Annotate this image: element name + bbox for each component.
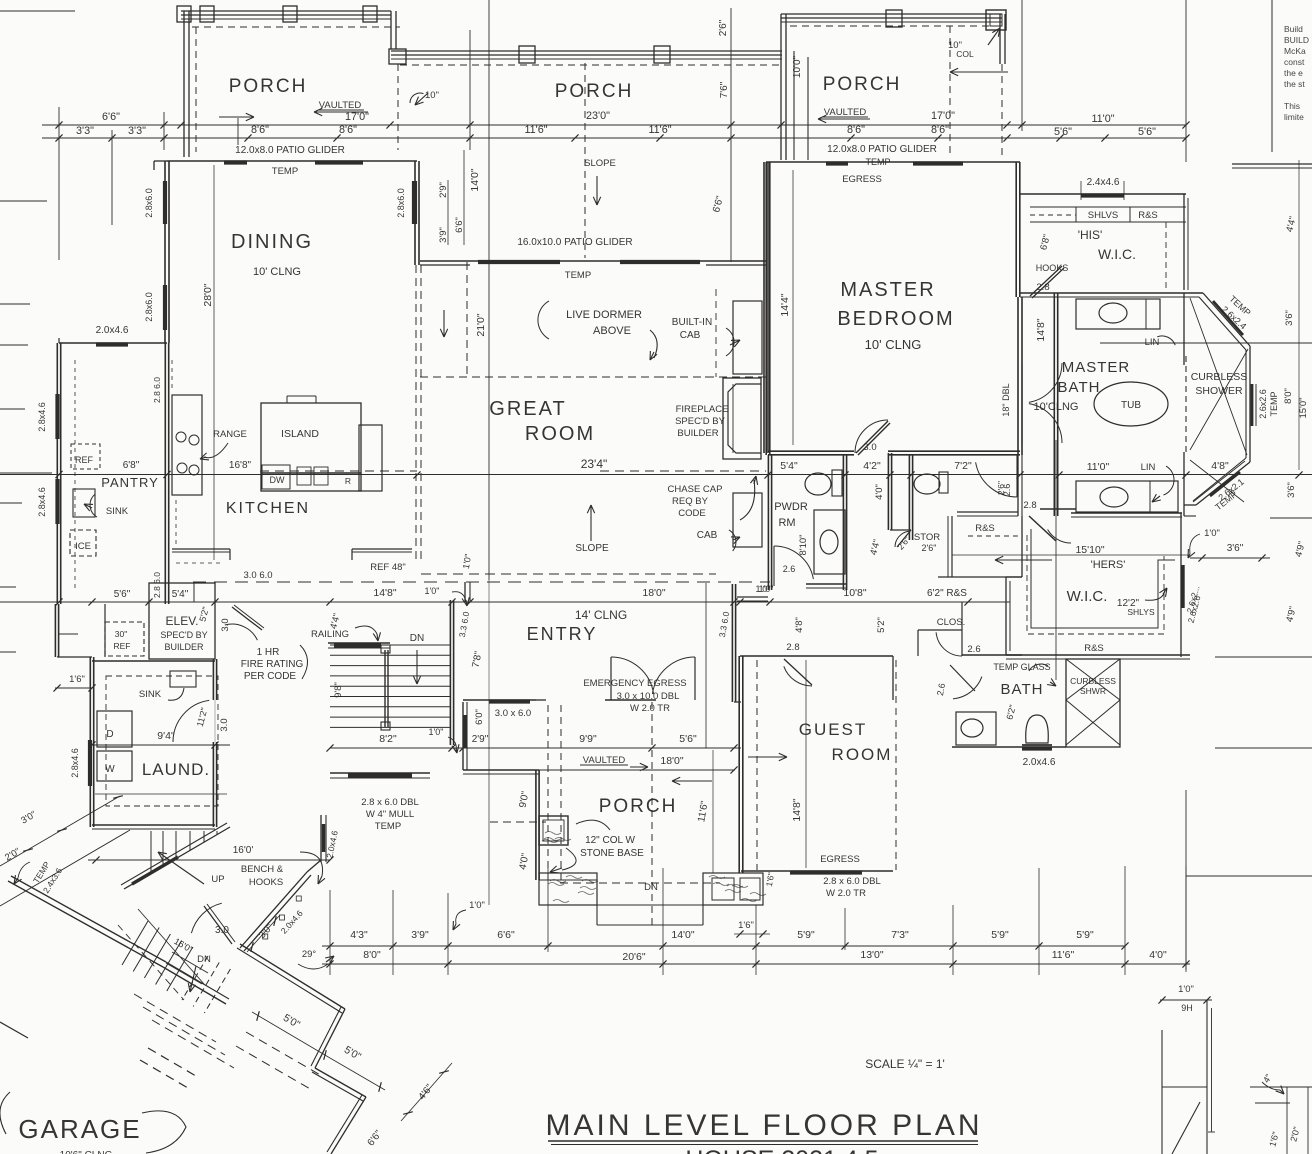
svg-text:W.I.C.: W.I.C. <box>1067 588 1108 605</box>
svg-text:TEMP GLASS: TEMP GLASS <box>993 662 1050 672</box>
master bath north wall <box>1020 292 1203 294</box>
dining NW corner jog <box>154 160 167 162</box>
mud door 3.0 leaf <box>204 906 232 944</box>
svg-text:BUILD: BUILD <box>1284 35 1309 45</box>
guest door opening and leaf <box>784 659 812 685</box>
porch4 center dashed <box>651 702 653 930</box>
svg-text:DN: DN <box>644 882 658 893</box>
svg-text:R&S: R&S <box>1084 643 1104 654</box>
svg-text:DN: DN <box>197 954 211 965</box>
svg-text:DW: DW <box>270 475 285 485</box>
svg-text:10'8": 10'8" <box>843 587 867 599</box>
svg-text:23'0": 23'0" <box>586 110 610 122</box>
svg-text:11'0": 11'0" <box>1087 461 1110 473</box>
svg-text:17'0": 17'0" <box>931 110 955 122</box>
svg-text:18'0": 18'0" <box>660 755 684 767</box>
roof dashed over built-in <box>715 289 717 377</box>
his wic west wall <box>1021 297 1023 455</box>
label REF pantry <box>71 444 100 469</box>
kitchen cab dashes south <box>176 562 222 564</box>
linen north wall <box>957 511 1018 513</box>
svg-text:5'9": 5'9" <box>1076 929 1094 941</box>
dining west windows 2.8x6.0 <box>163 181 167 224</box>
svg-text:HOOKS: HOOKS <box>249 877 283 888</box>
svg-text:VAULTED: VAULTED <box>583 755 626 766</box>
svg-text:6'6": 6'6" <box>497 929 515 941</box>
svg-text:2.6: 2.6 <box>783 564 796 574</box>
pantry dim ticks <box>55 471 62 478</box>
laundry dim 9'4 <box>90 744 230 746</box>
laundry north wall <box>92 660 215 662</box>
svg-text:KITCHEN: KITCHEN <box>226 500 310 517</box>
stor door diagonal <box>897 530 911 547</box>
porch2 interior dashed column lines <box>584 63 586 258</box>
svg-text:const: const <box>1284 57 1305 67</box>
svg-text:16'8": 16'8" <box>229 460 252 471</box>
svg-text:STOR: STOR <box>914 532 940 543</box>
svg-text:BUILT-IN: BUILT-IN <box>672 317 712 328</box>
porch top-left west wall <box>183 11 185 157</box>
svg-text:UP: UP <box>211 874 224 885</box>
svg-text:3'3": 3'3" <box>128 125 146 137</box>
svg-text:2.6: 2.6 <box>935 682 947 696</box>
garage step wall D down-left <box>331 1097 366 1154</box>
svg-text:1'6": 1'6" <box>69 674 85 685</box>
svg-text:RANGE: RANGE <box>213 429 247 440</box>
svg-text:SHOWER: SHOWER <box>1195 385 1243 397</box>
porch top-right corner column <box>986 10 1006 30</box>
stor walls <box>912 455 914 540</box>
svg-text:2.6x2.6: 2.6x2.6 <box>1258 389 1268 419</box>
svg-text:29°: 29° <box>302 949 317 960</box>
svg-text:16.0x10.0 PATIO GLIDER: 16.0x10.0 PATIO GLIDER <box>517 237 632 248</box>
guest room north wall <box>740 655 893 657</box>
corridor diagonal cross line <box>138 909 204 984</box>
pantry dashed door <box>164 359 166 391</box>
svg-text:7'2": 7'2" <box>954 460 972 472</box>
svg-text:DINING: DINING <box>231 231 313 253</box>
kitchen counter dashed <box>175 500 177 545</box>
svg-text:14'8": 14'8" <box>1035 318 1047 342</box>
svg-text:2'9": 2'9" <box>438 182 449 198</box>
porch4 roof dash left <box>490 821 546 823</box>
master south wall right of door <box>888 450 1020 452</box>
pwdr west wall <box>771 455 773 590</box>
svg-text:10' CLNG: 10' CLNG <box>253 266 301 278</box>
svg-text:W 4" MULL: W 4" MULL <box>366 809 414 820</box>
title underline <box>548 1140 978 1142</box>
svg-text:ABOVE: ABOVE <box>593 325 631 337</box>
bench hook squares <box>263 934 268 939</box>
svg-text:This: This <box>1284 101 1300 111</box>
dormer curve brackets <box>538 301 549 339</box>
laundry door arc <box>173 700 209 742</box>
svg-text:the e: the e <box>1284 68 1303 78</box>
clos walls <box>917 630 919 656</box>
svg-text:LIN: LIN <box>1141 462 1156 473</box>
svg-text:VAULTED: VAULTED <box>824 107 867 118</box>
svg-text:TEMP: TEMP <box>272 166 298 177</box>
svg-text:23'4": 23'4" <box>581 457 608 471</box>
svg-text:R: R <box>345 476 351 486</box>
svg-text:RM: RM <box>778 517 795 529</box>
svg-text:6'0": 6'0" <box>474 709 485 725</box>
svg-text:MASTER: MASTER <box>1062 359 1131 376</box>
porch top-left roof beam <box>181 10 391 12</box>
svg-text:SCALE ¼" = 1': SCALE ¼" = 1' <box>865 1057 945 1071</box>
porch top-middle roof beam <box>391 50 782 52</box>
svg-text:4'0": 4'0" <box>874 484 885 500</box>
svg-text:SHWR: SHWR <box>1080 686 1106 696</box>
svg-text:4'0": 4'0" <box>1149 949 1167 961</box>
kitchen island <box>261 403 361 473</box>
svg-text:2.6: 2.6 <box>967 644 980 655</box>
mud west wall <box>58 604 60 657</box>
detail right dims <box>1250 1086 1312 1088</box>
guest bath toilet <box>1026 715 1049 743</box>
svg-text:3.0 x 10.0 DBL: 3.0 x 10.0 DBL <box>617 691 680 702</box>
entry hall east wall <box>735 584 737 702</box>
laundry east wall lower <box>216 742 218 827</box>
dim line y555 hers <box>952 554 1190 556</box>
master door swing arc <box>855 420 888 453</box>
hall jog wall east <box>737 596 768 598</box>
svg-text:ISLAND: ISLAND <box>281 428 319 440</box>
svg-text:REF 48": REF 48" <box>370 562 406 573</box>
deck east window <box>322 824 325 852</box>
svg-text:5'2": 5'2" <box>876 617 887 633</box>
svg-text:2.8: 2.8 <box>786 642 799 653</box>
porch4 dashes stoop <box>560 882 720 884</box>
master bath south wall <box>1040 508 1076 510</box>
svg-text:2.8: 2.8 <box>1036 282 1049 293</box>
entry double door arcs <box>611 657 654 694</box>
svg-text:3.0 6.0: 3.0 6.0 <box>243 570 272 581</box>
guest bath vanity <box>956 712 996 745</box>
dim 16'0 deck <box>88 859 330 861</box>
garage approach angled dim lines top-left <box>0 796 120 866</box>
his wic roof dashed <box>1165 222 1167 290</box>
dim extension x489 porch4 <box>488 700 490 905</box>
svg-text:SHLVS: SHLVS <box>1088 210 1118 221</box>
svg-text:CAB: CAB <box>680 330 701 341</box>
deck east wall vertical <box>320 815 322 862</box>
svg-text:'HERS': 'HERS' <box>1091 559 1126 571</box>
svg-text:3'6": 3'6" <box>1284 310 1295 326</box>
hers wic inner dashed shelf <box>1027 535 1164 634</box>
hooks rod diagonal <box>1030 266 1062 296</box>
pantry shelves dashes <box>74 360 76 590</box>
porch3 left arrow <box>950 71 1008 73</box>
bottom dim line upper y946 <box>322 945 1125 947</box>
svg-text:W 2.0 TR: W 2.0 TR <box>630 703 670 714</box>
svg-text:1'0": 1'0" <box>1178 984 1194 995</box>
hers wic east wall <box>1180 513 1182 657</box>
dining east wall <box>418 161 420 265</box>
top dimension line upper <box>42 124 1186 126</box>
angled dim 3'0 bench <box>247 915 280 952</box>
dining north windows temp <box>224 160 247 164</box>
hers wic inner outline <box>1031 529 1175 628</box>
svg-text:PORCH: PORCH <box>229 76 308 97</box>
svg-text:TEMP: TEMP <box>565 270 591 281</box>
island top jogs <box>286 396 288 403</box>
angled dim 5'0 a <box>252 1012 330 1058</box>
pantry east wall <box>168 343 170 604</box>
svg-text:12" COL W: 12" COL W <box>585 835 635 846</box>
svg-text:3'6": 3'6" <box>1227 543 1244 554</box>
svg-text:VAULTED: VAULTED <box>319 100 362 111</box>
svg-text:REF: REF <box>114 641 131 651</box>
deck steps fan below laundry <box>150 831 152 873</box>
guest interior dashed right <box>895 660 897 870</box>
master door 3.0 leaf <box>856 421 888 453</box>
his wic north wall <box>1020 193 1186 195</box>
svg-text:SINK: SINK <box>106 506 129 517</box>
svg-text:3.0: 3.0 <box>863 442 876 453</box>
svg-text:BEDROOM: BEDROOM <box>837 308 954 330</box>
ticks bottom dims <box>326 942 333 949</box>
svg-text:1'6": 1'6" <box>738 920 754 931</box>
svg-text:8'6": 8'6" <box>339 124 357 136</box>
svg-text:BATH: BATH <box>1001 681 1044 698</box>
svg-text:REF: REF <box>75 455 94 465</box>
stair east wall <box>453 600 455 745</box>
svg-text:14'4": 14'4" <box>779 293 791 317</box>
guest bath window 2.0x4.6 <box>1022 746 1052 750</box>
svg-text:28'0": 28'0" <box>202 283 214 307</box>
svg-text:4'3": 4'3" <box>350 929 368 941</box>
wc toilet <box>914 474 940 494</box>
range burners <box>176 432 186 442</box>
svg-text:BUILDER: BUILDER <box>677 428 718 439</box>
svg-text:SHLYS: SHLYS <box>1127 607 1155 617</box>
svg-text:W: W <box>105 764 115 775</box>
wc door arc <box>1016 455 1018 497</box>
porch top-right eave dashed <box>790 25 1000 27</box>
svg-text:14'0": 14'0" <box>671 929 695 941</box>
porch top-left columns <box>177 6 191 22</box>
svg-text:STONE BASE: STONE BASE <box>580 848 644 859</box>
svg-text:10' CLNG: 10' CLNG <box>865 337 922 352</box>
svg-text:1'0": 1'0" <box>425 586 440 596</box>
mud door swing arc <box>191 903 221 933</box>
svg-text:15'0": 15'0" <box>1298 397 1309 418</box>
svg-text:17'0": 17'0" <box>345 111 369 123</box>
porch top-left west eave dashed <box>195 27 197 152</box>
svg-text:McKa: McKa <box>1284 46 1306 56</box>
master bedroom north wall <box>766 161 1020 163</box>
pwdr toilet <box>805 473 831 495</box>
stair railing <box>384 650 386 727</box>
svg-text:CODE: CODE <box>678 508 705 519</box>
svg-text:limite: limite <box>1284 112 1304 122</box>
right margin vertical border line <box>1271 0 1273 152</box>
svg-text:CURBLESS: CURBLESS <box>1191 371 1248 383</box>
guest bath south wall <box>952 746 1066 748</box>
stairs block <box>330 644 450 646</box>
svg-text:D: D <box>106 729 113 740</box>
garage entry wall fragments bottom-left <box>0 1022 28 1038</box>
label DW <box>262 465 290 489</box>
porch top-right east wall <box>999 14 1001 64</box>
svg-text:3'9": 3'9" <box>411 929 429 941</box>
svg-text:PANTRY: PANTRY <box>101 475 159 490</box>
porch4 area west wall <box>538 770 540 880</box>
svg-text:8'0": 8'0" <box>1283 388 1294 404</box>
vanity top box <box>1076 299 1160 329</box>
svg-text:20'6": 20'6" <box>622 951 646 963</box>
porch top-left east eave dashed <box>397 64 399 150</box>
his wic dashed rod line <box>1030 214 1076 216</box>
svg-text:21'0": 21'0" <box>475 313 487 337</box>
svg-text:1'0": 1'0" <box>469 900 485 911</box>
bench wall <box>240 872 307 948</box>
svg-text:5'6": 5'6" <box>1138 126 1156 138</box>
entry-porch jog wall <box>463 769 539 771</box>
svg-text:MAIN LEVEL FLOOR PLAN: MAIN LEVEL FLOOR PLAN <box>545 1109 982 1142</box>
tub <box>1094 382 1168 426</box>
svg-text:DN: DN <box>410 633 424 644</box>
svg-text:2.8x6.0: 2.8x6.0 <box>144 188 154 218</box>
arrow 12-2 up right <box>1145 590 1165 600</box>
great room slope arrow up <box>590 505 592 541</box>
right margin stub lines <box>1232 163 1312 165</box>
svg-text:11'0": 11'0" <box>1091 113 1114 125</box>
porch4 center steps <box>597 904 703 906</box>
svg-text:GREAT: GREAT <box>489 398 566 420</box>
svg-text:2.8: 2.8 <box>1023 500 1036 511</box>
great room north wall with patio glider windows <box>420 260 766 262</box>
bench upper wall to deck <box>307 860 321 872</box>
svg-text:EGRESS: EGRESS <box>842 174 882 185</box>
hers east window 2.6x2.6 <box>1181 565 1184 608</box>
svg-text:8'0": 8'0" <box>363 949 381 961</box>
pantry north window <box>96 342 128 346</box>
hall wall stor west <box>891 453 893 530</box>
svg-text:16'0': 16'0' <box>233 845 254 856</box>
svg-text:W.I.C.: W.I.C. <box>1098 246 1136 262</box>
svg-text:2'9": 2'9" <box>472 734 489 745</box>
svg-text:12.0x8.0 PATIO GLIDER: 12.0x8.0 PATIO GLIDER <box>235 145 345 156</box>
svg-text:14' CLNG: 14' CLNG <box>575 608 627 622</box>
right edge vertical dim lines <box>1298 160 1300 470</box>
shower bay top diagonal window temp <box>1213 301 1243 335</box>
bench arrow <box>300 852 323 876</box>
dim 18'0 <box>530 769 735 771</box>
svg-text:18'0": 18'0" <box>642 587 666 599</box>
svg-text:1'0": 1'0" <box>429 727 444 737</box>
great room south dashed vault line <box>421 573 716 575</box>
master bath doors DBL arcs <box>1029 363 1062 402</box>
svg-text:the st: the st <box>1284 79 1305 89</box>
svg-text:CLOS.: CLOS. <box>937 617 966 628</box>
great room dormer dashed rect <box>420 376 766 378</box>
shower bay east wall <box>1249 346 1251 462</box>
svg-text:PORCH: PORCH <box>823 74 902 95</box>
roof dashed angled lines below corridor <box>134 994 216 1042</box>
vanity bottom basin <box>1100 487 1128 507</box>
svg-text:TUB: TUB <box>1121 400 1141 411</box>
bath north wall <box>962 654 1022 656</box>
garage step wall B down-left <box>315 1009 345 1068</box>
svg-text:2.8x4.6: 2.8x4.6 <box>37 402 47 432</box>
laundry sink box <box>170 671 196 687</box>
porch top-right columns <box>886 10 902 27</box>
svg-text:3.0 x 6.0: 3.0 x 6.0 <box>495 708 531 719</box>
svg-text:5'6": 5'6" <box>679 733 697 745</box>
porch top-left east post <box>390 11 392 49</box>
svg-text:4'8": 4'8" <box>1211 460 1229 472</box>
svg-text:2.0x4.6: 2.0x4.6 <box>96 325 129 336</box>
svg-text:5'6": 5'6" <box>114 589 131 600</box>
corner arrows near 468 600 <box>452 592 466 602</box>
svg-text:ENTRY: ENTRY <box>527 624 598 644</box>
svg-text:2.8x4.6: 2.8x4.6 <box>70 748 80 778</box>
svg-text:LAUND.: LAUND. <box>142 760 210 779</box>
svg-text:3'3": 3'3" <box>76 125 94 137</box>
svg-text:SPEC'D BY: SPEC'D BY <box>675 416 726 427</box>
stair south wall with window <box>330 772 430 774</box>
mud corridor SW outer wall <box>8 881 163 967</box>
entry south windows 3.0x6.0 <box>489 699 530 703</box>
pantry ICE <box>70 530 96 556</box>
dining west wall <box>168 161 170 343</box>
hers wic west wall upper <box>1017 455 1019 516</box>
svg-text:PORCH: PORCH <box>599 796 678 817</box>
svg-text:ROOM: ROOM <box>832 745 893 764</box>
svg-text:1 HR: 1 HR <box>257 647 280 658</box>
his wic window 2.4x4.6 <box>1081 193 1124 197</box>
svg-text:2.8x6.0: 2.8x6.0 <box>396 188 406 218</box>
bottom dim line lower y964 <box>322 963 1190 965</box>
porch top-middle eave dashed <box>400 64 782 66</box>
svg-text:2.8x4.6: 2.8x4.6 <box>37 487 47 517</box>
bottom-right detail: column section <box>1161 1030 1163 1154</box>
shower bay walls <box>1183 293 1185 365</box>
bottom dim extension verticals <box>329 890 331 975</box>
deck angled wall with window <box>124 827 230 889</box>
detail dim 1'0 <box>1160 999 1212 1001</box>
mud corridor SW wall lower segment <box>163 967 226 1004</box>
shower bay bottom window temp <box>1210 472 1240 496</box>
svg-text:LIN: LIN <box>1145 337 1160 348</box>
dim extension x706 entry <box>705 583 707 748</box>
DN treads dashed lower <box>182 956 208 1000</box>
elev door diagonal <box>232 607 262 630</box>
pwdr south wall <box>806 583 847 585</box>
entry west wall lower <box>462 702 464 770</box>
svg-text:14'0": 14'0" <box>469 168 481 192</box>
svg-text:ICE: ICE <box>75 541 91 552</box>
porch2 small dims verticals <box>447 180 449 245</box>
svg-text:6'6": 6'6" <box>454 217 465 233</box>
svg-text:FIREPLACE: FIREPLACE <box>676 404 729 415</box>
svg-text:8'2": 8'2" <box>379 733 397 745</box>
porch top-right west wall <box>780 14 782 160</box>
porch1 slope arrow <box>219 116 254 118</box>
svg-text:11'6": 11'6" <box>1052 949 1075 961</box>
svg-text:TEMP: TEMP <box>1269 391 1279 416</box>
island sinks <box>297 467 311 485</box>
svg-text:2.4x4.6: 2.4x4.6 <box>1087 177 1120 188</box>
svg-text:MASTER: MASTER <box>840 279 935 301</box>
porch top-middle columns <box>519 46 535 63</box>
pantry sink <box>73 489 95 517</box>
svg-text:3'9": 3'9" <box>438 227 449 243</box>
svg-text:BENCH &: BENCH & <box>241 864 284 875</box>
hers wic door diagonal <box>1029 516 1056 541</box>
